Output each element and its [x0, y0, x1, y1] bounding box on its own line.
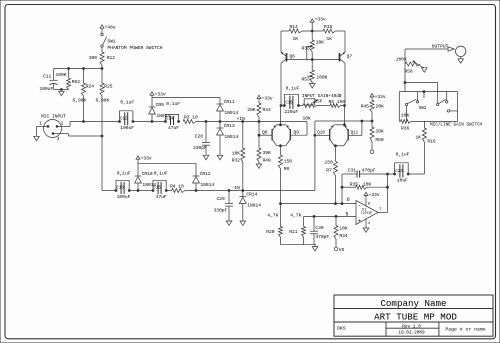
svg-text:470pF: 470pF — [315, 234, 329, 240]
resistor R44 20K — [247, 103, 271, 122]
svg-text:39K: 39K — [263, 150, 272, 156]
ground R58 wiper — [422, 68, 428, 72]
svg-text:0,1uF: 0,1uF — [286, 86, 300, 92]
transistor Q6 — [281, 31, 295, 106]
pin 1 output label — [379, 207, 382, 211]
svg-text:C15: C15 — [153, 186, 161, 190]
svg-text:R44: R44 — [263, 107, 272, 113]
terminal below R50 — [370, 150, 374, 154]
svg-text:0,1uF: 0,1uF — [166, 101, 180, 107]
power +33v above CR10 — [136, 155, 152, 163]
wire SW2 center stub — [423, 91, 425, 98]
svg-text:39K: 39K — [375, 129, 384, 135]
wire pin6 bus — [280, 203, 356, 205]
resistor R49 39K — [257, 135, 271, 164]
wire lower rail -IN — [102, 190, 315, 192]
label date 19.02.2009 — [398, 330, 425, 335]
wire main to Q9 base — [290, 122, 307, 136]
connector OUTPUT jack — [432, 43, 466, 59]
svg-text:CR10: CR10 — [142, 171, 153, 177]
ground below C29 — [226, 221, 232, 225]
svg-text:100K: 100K — [56, 72, 67, 78]
svg-text:6,98K: 6,98K — [73, 98, 87, 104]
wire bias bottom rail — [281, 244, 317, 246]
wire Q11 base loop — [348, 121, 362, 135]
wire collector rail — [281, 30, 345, 32]
node +IN label — [237, 116, 246, 122]
transistor Q11 — [344, 125, 359, 146]
svg-text:6,98K: 6,98K — [96, 98, 110, 104]
wire Q10 Q11 collectors join — [334, 145, 344, 147]
svg-text:10K: 10K — [303, 115, 312, 121]
wire Q10 Q11 emitters join — [334, 106, 345, 126]
svg-text:47uF: 47uF — [168, 125, 179, 131]
label ART TUBE MP MOD — [374, 312, 457, 323]
potentiometer R58 100K — [396, 49, 425, 75]
svg-text:C31: C31 — [348, 168, 357, 174]
label DKS — [337, 326, 346, 332]
svg-text:R4 10: R4 10 — [170, 184, 184, 190]
node VS terminal — [334, 247, 344, 253]
svg-text:R45: R45 — [361, 103, 370, 109]
wire -IN riser to Q10 base — [314, 134, 330, 190]
capacitor C23 10uF + 0.1uF — [388, 152, 425, 184]
svg-text:6: 6 — [347, 197, 350, 203]
svg-text:R20: R20 — [266, 229, 275, 235]
wire pin2 hot — [57, 121, 120, 127]
svg-text:C30: C30 — [315, 225, 324, 231]
capacitor C15 47uF + 0.1uF — [152, 171, 168, 201]
ground below C11 — [59, 91, 65, 95]
resistor R14 1K — [289, 24, 302, 42]
wire phantom rail — [54, 68, 103, 70]
svg-text:100uF: 100uF — [120, 125, 134, 131]
svg-text:ART TUBE MP MOD: ART TUBE MP MOD — [374, 312, 457, 323]
diode CR14 1N914 — [239, 191, 261, 222]
svg-text:CR11: CR11 — [224, 99, 235, 105]
svg-text:R12: R12 — [107, 55, 116, 61]
svg-text:0,1uF: 0,1uF — [117, 171, 131, 177]
power +33v above R33 — [310, 16, 326, 31]
power +48v — [100, 24, 116, 33]
svg-text:Q10: Q10 — [317, 132, 325, 136]
svg-text:10K: 10K — [232, 150, 241, 156]
wire pin3 cold — [53, 134, 103, 191]
svg-text:1N914: 1N914 — [224, 134, 238, 140]
resistor R3 10 — [183, 115, 198, 124]
svg-text:470pF: 470pF — [362, 168, 376, 174]
power +33v above R44 — [257, 95, 273, 103]
svg-text:R49: R49 — [263, 157, 272, 163]
resistor R15 1K — [323, 24, 335, 42]
svg-text:R6: R6 — [284, 166, 290, 172]
svg-text:SW1: SW1 — [107, 38, 116, 44]
svg-text:10K: 10K — [316, 40, 325, 46]
svg-text:R58: R58 — [404, 69, 413, 75]
wire opamp output — [378, 173, 388, 212]
svg-text:+33v: +33v — [141, 155, 152, 161]
potentiometer R33 10K — [302, 31, 325, 60]
svg-text:R36: R36 — [401, 126, 410, 132]
label Company Name — [380, 298, 446, 309]
transistor Q9 — [286, 125, 299, 146]
wire Q8 Q9 emitters join — [277, 106, 286, 126]
svg-text:R32: R32 — [232, 157, 241, 163]
transistor Q7 — [340, 31, 353, 106]
svg-text:1K: 1K — [293, 36, 299, 42]
svg-text:100uF: 100uF — [40, 86, 54, 92]
svg-text:VS: VS — [339, 247, 345, 253]
svg-text:C28: C28 — [195, 133, 204, 139]
svg-text:R53: R53 — [302, 77, 311, 83]
svg-text:PHANTOM POWER SWITCH: PHANTOM POWER SWITCH — [107, 45, 162, 51]
resistor R35 10K — [342, 181, 388, 189]
power +33v opamp pin 8 — [364, 192, 380, 206]
svg-text:C12: C12 — [120, 117, 128, 121]
ground below R53 — [309, 84, 315, 88]
wire Q8 Q9 collectors join — [277, 145, 286, 147]
diode CR9 1N914 — [149, 98, 171, 122]
resistor R6 150 — [279, 146, 293, 204]
wire to output jack — [405, 48, 447, 50]
wire Q6 Q7 bases — [287, 59, 340, 61]
ground bias network — [312, 245, 318, 251]
svg-text:4,7K: 4,7K — [290, 213, 301, 219]
svg-text:R34: R34 — [339, 233, 348, 239]
svg-text:Q6: Q6 — [290, 54, 296, 60]
wire pin5 bus — [304, 216, 356, 227]
wire C12 to CR9 — [133, 121, 165, 123]
ground XLR pin1 — [34, 136, 40, 140]
wire pin1 to ground — [37, 126, 49, 136]
svg-text:100uF: 100uF — [117, 194, 131, 200]
resistor R34 10K — [334, 216, 348, 247]
capacitor C12 100uF + 0.1uF — [119, 99, 135, 131]
svg-text:INPUT GAIN+40dB: INPUT GAIN+40dB — [302, 94, 342, 99]
svg-text:100K: 100K — [396, 57, 407, 63]
wire R44 node to Q8 base — [258, 122, 272, 137]
svg-text:330pF: 330pF — [193, 145, 207, 151]
svg-text:+33v: +33v — [315, 16, 326, 22]
switch SW2 wiring box — [399, 92, 457, 122]
resistor R5 150 — [317, 99, 346, 107]
svg-text:5: 5 — [345, 211, 348, 217]
diode CR12 1N914 — [193, 171, 215, 191]
label MIC/LINE GAIN SWITCH — [430, 123, 483, 128]
resistor R16 1K — [415, 121, 435, 174]
svg-text:C23: C23 — [395, 170, 403, 174]
svg-text:150: 150 — [284, 159, 293, 165]
svg-text:R14: R14 — [290, 24, 299, 30]
svg-text:SW2: SW2 — [419, 107, 427, 111]
connector J1 MIC INPUT XLR — [39, 113, 66, 141]
svg-text:C29: C29 — [217, 196, 226, 202]
svg-text:Company Name: Company Name — [380, 298, 446, 309]
switch SW1 PHANTOM POWER SWITCH — [101, 33, 163, 52]
svg-text:CR9: CR9 — [156, 102, 165, 108]
svg-text:4,7K: 4,7K — [267, 213, 278, 219]
svg-text:+48v: +48v — [105, 24, 116, 30]
svg-text:20K: 20K — [247, 107, 256, 113]
svg-text:0,1uF: 0,1uF — [154, 171, 168, 177]
ground opamp pin 4 — [363, 219, 370, 233]
svg-text:20K: 20K — [376, 103, 385, 109]
label Page # or name — [445, 326, 485, 332]
svg-text:220uF: 220uF — [284, 109, 298, 115]
svg-text:R15: R15 — [324, 24, 333, 30]
power +33v above CR9 — [150, 91, 166, 97]
svg-text:+33v: +33v — [375, 94, 386, 100]
svg-text:-IN: -IN — [232, 185, 241, 191]
svg-text:10uF: 10uF — [397, 178, 408, 184]
wire R3 to Q9 corner — [196, 121, 307, 123]
resistor R32 10K — [232, 122, 245, 191]
svg-text:MIC/LINE GAIN SWITCH: MIC/LINE GAIN SWITCH — [430, 123, 483, 128]
svg-text:-: - — [358, 201, 361, 208]
svg-text:+: + — [358, 218, 361, 225]
svg-text:CR14: CR14 — [246, 191, 257, 197]
transistor Q8 — [262, 125, 277, 146]
resistor R52 100K — [56, 69, 81, 90]
resistor R21 4.7K — [289, 213, 305, 245]
diode CR10 1N914 — [135, 163, 157, 190]
svg-text:1N914: 1N914 — [224, 110, 238, 116]
ground below CR14 — [240, 221, 246, 225]
svg-text:DKS: DKS — [337, 326, 346, 332]
svg-text:R25: R25 — [104, 83, 113, 89]
svg-text:19.02.2009: 19.02.2009 — [398, 330, 425, 335]
svg-text:1N914: 1N914 — [247, 202, 261, 208]
svg-text:R21: R21 — [289, 229, 298, 235]
svg-text:R7: R7 — [326, 167, 332, 173]
svg-text:CR12: CR12 — [200, 171, 211, 177]
resistor R50 39K — [370, 121, 384, 150]
diode CR13 1N914 — [217, 122, 239, 156]
resistor R45 20K — [361, 100, 384, 121]
pin 6 label — [347, 197, 350, 203]
svg-text:R50: R50 — [375, 137, 384, 143]
label Rev 1.0 — [402, 324, 421, 329]
title block frame — [334, 295, 493, 336]
svg-text:3: 3 — [57, 136, 60, 142]
ground below R49 — [256, 164, 262, 168]
wire top rail Q10 Q11 — [315, 120, 373, 135]
svg-text:C14: C14 — [166, 117, 174, 121]
power +33v above R45 — [370, 94, 386, 101]
capacitor C28 330pF — [193, 122, 210, 156]
resistor R25 6.98K — [96, 69, 113, 137]
svg-text:10K: 10K — [401, 112, 410, 118]
svg-text:300: 300 — [89, 55, 98, 61]
svg-text:MIC INPUT: MIC INPUT — [41, 113, 66, 119]
svg-text:Rev 1.0: Rev 1.0 — [402, 324, 421, 329]
resistor R24 6.98K — [73, 69, 95, 122]
switch SW2 pole B — [419, 99, 450, 112]
svg-text:+33v: +33v — [155, 91, 166, 97]
svg-text:1K: 1K — [415, 135, 421, 141]
svg-text:1N914: 1N914 — [200, 182, 214, 188]
capacitor C29 330pF — [214, 191, 234, 222]
svg-text:+IN: +IN — [237, 116, 246, 122]
svg-text:R33: R33 — [302, 45, 311, 51]
resistor R4 10 — [170, 184, 185, 193]
svg-text:47uF: 47uF — [156, 194, 167, 200]
svg-text:Q9: Q9 — [294, 130, 300, 136]
capacitor C14 47uF + 0.1uF — [165, 101, 181, 131]
svg-text:150: 150 — [325, 160, 334, 166]
capacitor C30 470pF — [310, 216, 329, 244]
svg-text:R3 10: R3 10 — [184, 115, 198, 121]
pin 5 label — [345, 211, 348, 217]
svg-text:OUTPUT: OUTPUT — [432, 43, 449, 49]
svg-text:+33v: +33v — [369, 192, 380, 198]
ground output jack — [458, 59, 464, 63]
ground below CR13 — [217, 155, 223, 159]
svg-text:0,1uF: 0,1uF — [120, 99, 134, 105]
svg-text:C11: C11 — [43, 74, 52, 80]
node -IN label — [232, 185, 241, 191]
capacitor C11 100uF — [40, 69, 69, 93]
resistor R7 150 — [325, 146, 338, 204]
svg-text:C13: C13 — [116, 186, 124, 190]
capacitor C13 100uF + 0.1uF — [115, 171, 131, 201]
potentiometer R53 100K — [302, 60, 328, 84]
resistor R12 300 — [89, 52, 116, 69]
svg-text:10K: 10K — [363, 181, 372, 187]
svg-text:0,1uF: 0,1uF — [396, 152, 410, 158]
ground below C28 — [203, 155, 209, 159]
svg-text:TL072P: TL072P — [361, 211, 373, 215]
svg-text:CR13: CR13 — [224, 123, 235, 129]
svg-text:2: 2 — [61, 121, 64, 127]
svg-text:100K: 100K — [316, 74, 327, 80]
svg-text:1K: 1K — [327, 36, 333, 42]
wire +33v rail CR10 to CR12 — [138, 163, 196, 176]
switch SW2 pole A — [405, 99, 418, 105]
svg-text:330pF: 330pF — [214, 208, 228, 214]
diode CR11 1N914 — [217, 99, 239, 122]
transistor Q10 — [317, 125, 334, 146]
capacitor C16 220uF + 0.1uF — [280, 86, 300, 116]
svg-text:C16: C16 — [285, 101, 293, 105]
op-amp U1 TL072P — [356, 201, 378, 225]
wire R58 to switch pole B — [404, 64, 438, 103]
capacitor C31 470pF — [342, 168, 388, 178]
svg-text:R5 150: R5 150 — [329, 99, 346, 105]
svg-text:R52: R52 — [72, 79, 81, 85]
svg-text:R16: R16 — [427, 138, 436, 144]
resistor R36 10K — [401, 112, 412, 131]
potentiometer R5P INPUT GAIN+40dB 10K — [298, 94, 341, 121]
svg-text:R35: R35 — [350, 181, 359, 187]
svg-text:Q8: Q8 — [262, 130, 268, 136]
svg-text:R5P: R5P — [315, 100, 323, 104]
wire feedback left riser — [341, 174, 343, 204]
svg-text:10K: 10K — [339, 226, 348, 232]
resistor R20 4.7K — [266, 204, 282, 245]
wire +33v rail CR9 to CR11 — [152, 98, 220, 104]
svg-text:Q7: Q7 — [347, 54, 353, 60]
svg-text:Page # or name: Page # or name — [445, 326, 485, 332]
svg-text:1: 1 — [39, 121, 42, 127]
svg-text:R24: R24 — [86, 83, 95, 89]
svg-text:+33v: +33v — [262, 96, 273, 102]
